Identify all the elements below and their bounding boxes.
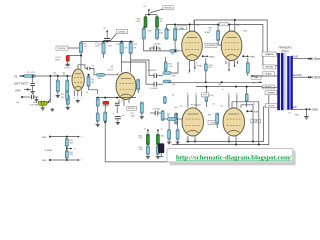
resistor R39 small [163, 96, 166, 103]
pin labels V6 bottom [228, 139, 229, 141]
heater terminal bottom [42, 160, 47, 162]
resistor R44 [156, 146, 159, 155]
label box BLACK2 [263, 85, 275, 89]
bottom bus to VIOLET [186, 107, 277, 142]
label R17 [130, 113, 133, 115]
pins above V4 [228, 25, 230, 32]
svg-text:R29: R29 [172, 84, 175, 86]
ground near wiper [50, 108, 54, 111]
pins above V5 [187, 95, 189, 108]
svg-text:6.3VAC: 6.3VAC [45, 149, 53, 152]
pins below V1 [73, 91, 75, 97]
svg-text:C6: C6 [86, 92, 88, 94]
svg-text:1M: 1M [61, 97, 64, 99]
svg-text:220VDC: 220VDC [128, 108, 136, 110]
ground below C8 [116, 122, 120, 125]
secondary YELLOW 4 Ohm [292, 74, 303, 77]
wire R2 R3 tops [57, 76, 59, 80]
supply arrow +U2 top [143, 6, 146, 8]
NFB wire down [104, 122, 106, 162]
wire input line [22, 75, 25, 77]
label box 220VDC right [127, 107, 137, 111]
svg-text:6L34: 6L34 [243, 31, 247, 33]
svg-text:P G: P G [204, 95, 208, 97]
resistor R37 [216, 113, 219, 124]
label box 220VDC [56, 46, 68, 50]
svg-text:+U: +U [143, 6, 146, 8]
svg-text:C11/630V: C11/630V [150, 88, 159, 90]
resistor R9 grid leak [87, 76, 90, 87]
output transformer T1 windings [277, 53, 293, 111]
svg-text:4 Ohm: 4 Ohm [311, 76, 320, 80]
arrow +V1 [252, 83, 257, 85]
label B1 [17, 102, 20, 104]
wire lower plate right2 [232, 102, 259, 145]
svg-text:GRN: GRN [42, 160, 47, 162]
resistor R13 right of V2 [137, 79, 140, 90]
plate resistor R12 [129, 42, 132, 54]
heater center tap [66, 147, 68, 151]
svg-text:7: 7 [197, 139, 198, 141]
wire secondary to ground [305, 109, 307, 115]
svg-text:BIAS: BIAS [254, 76, 259, 79]
watermark box [167, 149, 296, 166]
label small mid [222, 89, 224, 91]
svg-text:YELLOW: YELLOW [292, 74, 303, 77]
resistor R43 [146, 146, 149, 155]
wire R25 to grid resistor [174, 41, 176, 51]
svg-text:6,3: 6,3 [180, 105, 182, 107]
resistor R1 [24, 75, 36, 78]
svg-text:6CG7: 6CG7 [108, 69, 114, 71]
label box 420VDC [116, 30, 127, 34]
svg-text:R42: R42 [161, 135, 164, 137]
svg-text:R37: R37 [208, 115, 211, 117]
plate resistor R10 [102, 42, 105, 54]
svg-text:GRN: GRN [42, 137, 47, 139]
label box choke [219, 22, 228, 25]
svg-text:5: 5 [81, 98, 82, 100]
label 6L34 [243, 31, 247, 33]
capacitor C2 network [22, 96, 31, 98]
wire screens bus [143, 26, 145, 28]
wire to tube A grid [177, 50, 182, 52]
resistor R21 green [156, 17, 159, 28]
ground below R4 [67, 105, 69, 107]
svg-text:1x: 1x [222, 89, 224, 91]
svg-text:PL05: PL05 [136, 21, 140, 23]
svg-text:BROWN: BROWN [265, 67, 273, 69]
svg-text:GND: GND [15, 90, 21, 93]
label box B+ small [177, 26, 187, 30]
wire lower plate right [236, 107, 238, 109]
plate resistor R11 [120, 42, 123, 54]
tube V1 [72, 69, 84, 91]
svg-text:6: 6 [128, 70, 129, 72]
pins above V3 [189, 25, 191, 32]
resistor R63 [65, 139, 68, 147]
wire plate node [80, 53, 82, 69]
resistor R29 horizontal [163, 80, 171, 83]
svg-text:3R3: 3R3 [69, 142, 72, 144]
pin end dots below V3 [189, 70, 191, 72]
resistor R46 [176, 129, 179, 139]
label ROSA [197, 65, 203, 68]
resistor R27 [164, 62, 167, 71]
resistor R16 [104, 112, 107, 122]
node NFB junction [104, 121, 106, 124]
pins below V3 [189, 61, 191, 71]
capacitor C6 red [103, 101, 109, 104]
wiper of VR1 [49, 76, 51, 103]
bias arrow upper right [242, 55, 244, 57]
tube V3 upper left [182, 31, 203, 61]
svg-text:630V: 630V [55, 59, 60, 61]
svg-text:GND: GND [312, 108, 318, 112]
label V2 [111, 67, 115, 69]
wire rail to ORANGE tap [267, 53, 277, 55]
svg-text:22u/450: 22u/450 [154, 43, 161, 45]
svg-text:http://schematic-diagram.blogs: http://schematic-diagram.blogspot.com/ [176, 154, 292, 161]
svg-text:BIAS1: BIAS1 [250, 55, 255, 58]
svg-text:+U: +U [103, 28, 106, 30]
svg-text:EL34/6CA7: EL34/6CA7 [206, 44, 215, 47]
resistor R64 [65, 150, 68, 158]
ground below C2 [35, 99, 39, 102]
resistor R6 cathode V1 [66, 92, 69, 101]
inner rail B+ [167, 25, 263, 66]
resistor R8 grid stopper [97, 73, 105, 76]
svg-text:3R3: 3R3 [69, 154, 72, 156]
svg-text:EL34: EL34 [211, 122, 215, 124]
svg-text:8 Ohm: 8 Ohm [311, 57, 320, 61]
svg-text:220VDC: 220VDC [58, 48, 67, 50]
V2 cathode network wires [118, 100, 120, 104]
svg-text:BIAS2: BIAS2 [210, 55, 215, 58]
svg-text:1M: 1M [63, 75, 66, 77]
watermark url text [176, 154, 292, 161]
label V1 [65, 65, 72, 67]
resistor R22 [142, 28, 145, 39]
svg-text:TRANSFO: TRANSFO [278, 45, 293, 49]
outer rail B+ [194, 20, 267, 54]
svg-text:KT88: KT88 [180, 28, 185, 30]
bias arrows [147, 129, 149, 133]
svg-text:GND: GND [295, 115, 300, 117]
capacitor C3 red [66, 56, 69, 62]
svg-text:(Ohm): (Ohm) [281, 50, 288, 53]
ground below R15 [96, 123, 100, 126]
pins below V5 [187, 136, 189, 142]
input terminal IN [15, 75, 18, 79]
svg-text:Av: Av [219, 83, 221, 86]
svg-text:BIAS: BIAS [254, 110, 259, 113]
svg-text:ORANGE: ORANGE [265, 53, 274, 56]
svg-text:360VDC: 360VDC [164, 8, 172, 10]
svg-text:R28: R28 [172, 76, 175, 78]
label GND [295, 115, 300, 117]
wire to BLACK tap 1 [251, 75, 278, 77]
wire input to grid [36, 75, 72, 77]
svg-text:IN: IN [15, 75, 18, 79]
wires cathode bottom [97, 106, 99, 113]
svg-text:1: 1 [228, 64, 229, 66]
pin labels V5 bottom [187, 139, 188, 141]
svg-text:6CA7: 6CA7 [253, 120, 258, 123]
extra value labels [148, 31, 153, 33]
label Av [219, 83, 221, 86]
supply rail V1 V2 [81, 41, 134, 44]
pins above V6 [228, 95, 230, 108]
heater terminal top [42, 137, 47, 139]
svg-text:PL3: PL3 [139, 138, 142, 140]
pin labels V3 [188, 64, 189, 66]
ground below R43 [147, 155, 149, 156]
pin labels V4 [228, 64, 229, 66]
resistor R41 green [146, 134, 149, 145]
coupling capacitor C11 [154, 82, 157, 87]
svg-text:6,3: 6,3 [221, 105, 223, 107]
resistor R26 horizontal [170, 50, 177, 53]
wire to BLACK tap 2 [262, 86, 277, 89]
capacitor C1 [32, 75, 34, 77]
resistor R23 [155, 28, 158, 39]
bias arrow lower [246, 110, 248, 112]
plate resistor R5 [79, 42, 82, 53]
resistor R34 screen lower [205, 94, 208, 102]
ground below C1 [30, 91, 35, 95]
tube V2 [116, 73, 136, 100]
label above V5 [175, 107, 178, 109]
pins below V6 [228, 136, 230, 142]
heater bottom rail [66, 159, 68, 161]
tube V4 upper right [221, 31, 242, 61]
svg-text:1.0: 1.0 [122, 115, 125, 117]
resistor R33 [246, 63, 249, 74]
label TRANSFO [278, 45, 293, 49]
svg-text:6CG7: 6CG7 [65, 68, 71, 70]
resistor R32 [204, 64, 207, 72]
label box P GG [202, 93, 209, 97]
ground below C3 [67, 61, 69, 63]
label box BROWN [263, 65, 275, 69]
label U1 [288, 113, 291, 115]
capacitor C8 electrolytic [115, 117, 121, 119]
ground below V1 cathode [76, 100, 80, 103]
resistor R4 [66, 95, 69, 104]
resistor R15 [96, 113, 99, 122]
svg-text:100: 100 [139, 149, 142, 151]
resistor R24 [165, 28, 168, 39]
supply arrow +U [106, 34, 108, 39]
svg-text:GREEN: GREEN [267, 93, 275, 95]
svg-text:R25: R25 [167, 30, 170, 32]
heater top rail [50, 136, 76, 138]
label box BLACK1 [263, 72, 275, 76]
svg-text:RED: RED [292, 106, 297, 109]
NFB wire bottom [105, 161, 167, 163]
label box 6CA7 lower right [251, 119, 261, 123]
coupling capacitor C10 [154, 73, 157, 78]
resistor R40 small [161, 111, 164, 121]
wire supply Y node [148, 12, 150, 14]
pins below V4 [228, 61, 230, 71]
resistor R35 screen lower right [245, 94, 248, 102]
bus upper mid [168, 81, 262, 83]
capacitor C12 [155, 111, 158, 116]
label box 360VDC [163, 6, 173, 10]
ground transformer secondary [304, 116, 309, 120]
svg-text:R GG: R GG [209, 95, 214, 97]
resistor R3 [66, 80, 69, 92]
svg-text:5,6: 5,6 [237, 25, 240, 27]
terminal GND [15, 90, 21, 93]
svg-text:5,6: 5,6 [197, 25, 200, 27]
bottom bus to GREEN [172, 93, 277, 145]
pin end dots below V4 [228, 69, 230, 71]
resistor R14 [96, 98, 99, 106]
svg-text:VOLUME: VOLUME [30, 104, 39, 106]
label above tube V4 [205, 31, 211, 34]
capacitor C4 supply decoupling [104, 39, 110, 41]
label box GREEN [265, 91, 277, 95]
svg-text:BLACK: BLACK [265, 72, 272, 75]
label above tube V3 [180, 28, 185, 30]
svg-text:LEFT INPUT: LEFT INPUT [14, 83, 29, 86]
ground below R2 [57, 92, 59, 95]
svg-text:EL34/6CA7: EL34/6CA7 [191, 104, 201, 107]
svg-text:BLUE: BLUE [292, 55, 299, 58]
svg-text:0.22/630: 0.22/630 [153, 108, 160, 110]
svg-text:R10b: R10b [108, 46, 112, 48]
tube V5 lower left [182, 108, 204, 136]
svg-text:1M: 1M [91, 82, 94, 84]
resistor R31 [217, 30, 220, 40]
svg-text:420VDC: 420VDC [118, 31, 126, 33]
ground below R38 [140, 116, 144, 119]
label box VIOLET [265, 104, 277, 108]
wire rail to BROWN tap [263, 65, 277, 67]
tube V6 lower right [223, 108, 245, 136]
svg-text:VIOLET: VIOLET [268, 105, 276, 107]
svg-text:7: 7 [238, 139, 239, 141]
svg-text:8: 8 [197, 63, 198, 65]
resistor R36 [175, 113, 178, 124]
secondary BLUE 8 Ohm [292, 55, 299, 58]
resistor R25 [174, 28, 177, 41]
bias arrow upper left [202, 55, 204, 57]
label box EL34 upper [205, 43, 217, 47]
resistor R47 horizontal [168, 118, 177, 121]
secondary RED 0 [292, 106, 297, 109]
svg-text:1: 1 [188, 64, 189, 66]
svg-text:470K: 470K [130, 115, 135, 117]
capacitor C13 black [158, 144, 164, 153]
potentiometer VR1 volume [38, 101, 47, 105]
resistor R20 green [144, 17, 147, 28]
svg-text:4: 4 [120, 74, 121, 76]
ground below VR1 [42, 105, 44, 107]
label box ORANGE [262, 52, 276, 56]
label 6.3VAC [45, 149, 53, 152]
svg-text:C7: C7 [121, 101, 123, 103]
label LEFT INPUT [14, 83, 29, 86]
ground below R44 [157, 155, 159, 156]
svg-text:3: 3 [228, 139, 229, 141]
svg-text:3: 3 [74, 98, 75, 100]
ground below R46 [176, 141, 180, 144]
ground below R45 [167, 141, 171, 144]
label box bias right [251, 76, 261, 80]
pins below V4 stubs [225, 61, 227, 65]
resistor R42 green [156, 134, 159, 145]
capacitor C7 [115, 103, 120, 105]
svg-text:ROSA: ROSA [197, 65, 203, 68]
capacitor C9 screen [154, 46, 157, 51]
resistor R38 [140, 102, 143, 113]
resistor R2 [56, 80, 59, 92]
resistor R28 horizontal [163, 72, 171, 75]
coupling capacitor C5 [78, 65, 87, 69]
label box EL34 lower [208, 121, 218, 125]
svg-text:3: 3 [187, 139, 188, 141]
svg-text:4.7/350V: 4.7/350V [102, 106, 110, 108]
resistor R45 [168, 129, 171, 139]
